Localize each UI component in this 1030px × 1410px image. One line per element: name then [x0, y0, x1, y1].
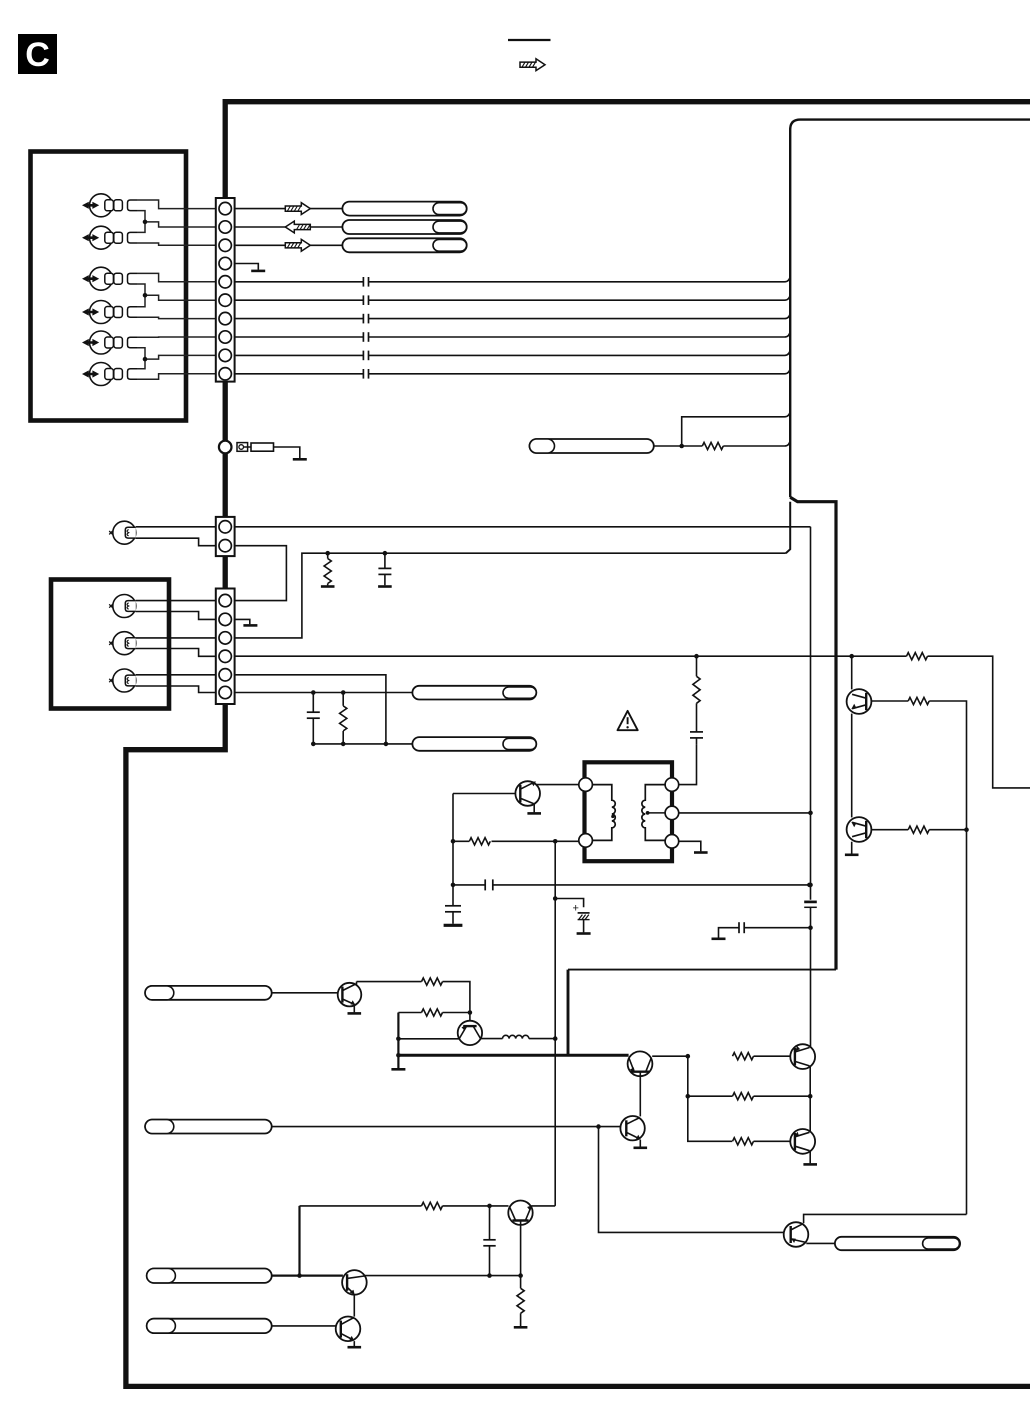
node [808, 883, 813, 888]
node [964, 827, 969, 832]
resistor R1 [324, 553, 331, 585]
node [686, 1094, 691, 1099]
connector CN3 pin 3 [219, 632, 231, 644]
connector CN1 pin 4 [219, 257, 231, 269]
resistor R7 [908, 697, 929, 704]
ground [514, 1326, 528, 1329]
ground [694, 851, 708, 854]
wire [654, 445, 682, 447]
capacitor C4 [485, 879, 493, 890]
ground [348, 1012, 362, 1015]
lamp PL1 [109, 521, 136, 544]
wire [443, 1012, 470, 1014]
connector CN1 pin 6 [219, 294, 231, 306]
net label [412, 686, 536, 700]
wire [520, 1221, 522, 1276]
wire [397, 1013, 399, 1069]
wire [235, 675, 386, 744]
node [396, 1037, 401, 1042]
transistor Q7 [620, 1116, 644, 1140]
ground [391, 1068, 405, 1071]
IC U1 outline jog to thick bus [790, 497, 836, 969]
transistor Q2 [847, 689, 872, 714]
ground [378, 585, 392, 588]
node [807, 883, 812, 888]
node [596, 1124, 601, 1129]
connector CN3 pin 4 [219, 650, 231, 662]
wire [532, 1205, 556, 1207]
connector CN3 pin 6 [219, 686, 231, 698]
wire [851, 842, 853, 854]
wire [136, 612, 216, 620]
wire [136, 686, 216, 693]
wire [652, 1055, 688, 1057]
wire [136, 526, 216, 528]
transistor Q3 [847, 817, 872, 842]
wire [145, 355, 216, 359]
wire [679, 744, 697, 785]
wire [744, 927, 810, 929]
capacitor C2 [307, 693, 320, 744]
wire [365, 1275, 521, 1277]
wire [688, 1095, 810, 1097]
wire [554, 841, 556, 1206]
net label [145, 986, 272, 1000]
connector CN1 pin 5 [219, 276, 231, 288]
resistor R5 [469, 838, 490, 845]
node [553, 1036, 558, 1041]
node [311, 742, 316, 747]
wire [136, 600, 216, 602]
motor M1 [82, 194, 137, 217]
transistor Q5 [458, 1021, 482, 1045]
node [311, 690, 316, 695]
resistor R2 [340, 693, 347, 744]
resistor R4 [693, 656, 700, 703]
wire [492, 840, 579, 842]
wire [682, 411, 791, 446]
transistor Q6 [628, 1051, 653, 1076]
node [808, 925, 813, 930]
wire [235, 264, 259, 270]
mechanism block (lamps) [51, 580, 169, 709]
title block label C [18, 34, 57, 74]
wire [235, 226, 343, 228]
board outline (thick border) [126, 102, 1030, 1387]
transformer T1 primary winding [592, 785, 615, 841]
ground [577, 932, 591, 935]
node [553, 839, 558, 844]
wire [272, 1274, 343, 1276]
transistor Q9 [790, 1129, 815, 1154]
resistor R13 [733, 1138, 754, 1145]
node [451, 883, 456, 888]
thermistor TH1 [237, 443, 251, 452]
node (junction) [143, 357, 148, 362]
net label [342, 220, 466, 234]
transistor Q1 [515, 781, 540, 806]
wire [235, 373, 364, 375]
resistor R8 [908, 826, 929, 833]
wire [493, 884, 810, 886]
wire [369, 331, 791, 337]
node [487, 1273, 492, 1278]
wire [810, 907, 812, 1047]
wire [599, 1127, 784, 1233]
transistor Q12 [342, 1270, 367, 1295]
node [341, 742, 346, 747]
transformer T1 pin 2 [579, 834, 593, 848]
connector CN1 pin 10 [219, 368, 231, 380]
wire [137, 243, 216, 245]
motor M2 [82, 226, 137, 249]
wire [679, 841, 701, 851]
wire break mark [363, 332, 368, 342]
motor M5 [82, 331, 137, 354]
ground [321, 585, 335, 588]
ground [527, 812, 541, 815]
wire [809, 1066, 811, 1132]
wire [235, 655, 852, 657]
wire [137, 273, 216, 281]
capacitor C3 [690, 703, 703, 744]
signal direction arrow [285, 239, 310, 251]
transformer T1 pin 1 [579, 778, 593, 792]
wire [235, 244, 343, 246]
wire [235, 692, 413, 694]
connector CN1 pin 7 [219, 312, 231, 324]
wire [639, 1072, 641, 1117]
wire [369, 276, 791, 282]
transformer T1 pin 4 [665, 806, 679, 820]
wire [369, 349, 791, 355]
legend arrow [520, 59, 545, 71]
connector CN1 pin 1 [219, 202, 231, 214]
connector CN1 [216, 198, 235, 382]
wire [929, 829, 966, 831]
wire [555, 899, 583, 908]
capacitor C9 [483, 1206, 495, 1276]
transistor Q13 [336, 1317, 361, 1342]
transistor Q11 [508, 1201, 532, 1225]
wire [136, 637, 216, 639]
connector CN3 pin 2 [219, 613, 231, 625]
wire [682, 440, 791, 446]
ground [634, 1147, 648, 1150]
connector CN3 [216, 589, 235, 705]
svg-text:C: C [25, 36, 50, 74]
node [325, 551, 330, 556]
wire [369, 313, 791, 319]
ground [293, 458, 307, 461]
IC U1 outline (rounded box) [790, 120, 1030, 498]
wire [719, 928, 740, 938]
fuse F1 [251, 443, 274, 451]
connector CN3 pin 5 [219, 669, 231, 681]
transistor Q8 [790, 1044, 815, 1069]
wire [804, 1214, 967, 1223]
capacitor C6 (electrolytic +) [573, 903, 590, 933]
wire [136, 649, 216, 657]
wire [353, 1341, 355, 1346]
wire [235, 336, 364, 338]
wire [398, 1054, 628, 1057]
wire [851, 714, 853, 818]
wire [235, 281, 364, 283]
connector CN2 pin 2 [219, 540, 231, 552]
wire break mark [363, 369, 368, 379]
node [808, 1094, 813, 1099]
net label [145, 1120, 272, 1134]
node [694, 654, 699, 659]
resistor R6 [907, 653, 928, 660]
wire [754, 1140, 791, 1142]
connector CN1 pin 3 [219, 239, 231, 251]
wire [852, 656, 1030, 788]
wire [272, 992, 338, 994]
node [396, 1053, 401, 1058]
wire [786, 502, 790, 554]
lamp PL4 [109, 669, 136, 692]
node [384, 742, 389, 747]
wire [443, 1205, 509, 1207]
wire [137, 348, 145, 359]
wire [136, 674, 216, 676]
node [679, 444, 684, 449]
net label [835, 1237, 960, 1250]
wire break mark [363, 277, 368, 287]
wire [529, 1038, 555, 1040]
connector CN2 [216, 517, 235, 556]
wire [533, 805, 535, 813]
wire [851, 656, 853, 689]
wire [688, 1056, 732, 1141]
node [808, 811, 813, 816]
wire break mark [363, 314, 368, 324]
wire [810, 527, 812, 900]
wire [536, 784, 579, 786]
signal direction arrow [285, 203, 310, 215]
resistor R9 [422, 1009, 443, 1016]
resistor R15 [517, 1276, 524, 1327]
capacitor C7 [804, 902, 817, 907]
transformer T1 tap [646, 811, 665, 815]
wire [806, 1242, 835, 1244]
wire [313, 743, 412, 745]
wire [274, 447, 300, 458]
wire break mark [363, 351, 368, 361]
transistor Q10 [784, 1222, 809, 1247]
resistor R12 [733, 1093, 754, 1100]
wire [300, 1205, 422, 1207]
net label [342, 238, 466, 252]
node [518, 1273, 523, 1278]
wire [966, 830, 968, 1215]
wire [369, 294, 791, 300]
wire [567, 970, 570, 1056]
motor M6 [82, 363, 137, 386]
wire [639, 1140, 641, 1147]
net label [342, 202, 466, 216]
inductor L1 [503, 1035, 529, 1038]
transformer T1 box [585, 762, 673, 861]
capacitor C8 [739, 922, 744, 933]
transformer T1 pin 5 [665, 835, 679, 849]
lamp PL3 [109, 632, 136, 655]
connector CN3 pin 1 [219, 594, 231, 606]
connector CN1 pin 9 [219, 349, 231, 361]
wire [353, 1006, 355, 1013]
mechanism block (motors) [31, 152, 187, 421]
node [849, 654, 854, 659]
resistor R10 [422, 978, 443, 985]
wire [235, 526, 811, 528]
resistor R11 [733, 1053, 754, 1060]
wire [453, 840, 469, 842]
capacitor C5 [445, 885, 461, 924]
wire [137, 336, 216, 338]
wire [568, 969, 836, 971]
wire [137, 295, 145, 306]
wire [369, 368, 791, 374]
wire [453, 884, 485, 886]
wire [871, 700, 908, 702]
wire [443, 982, 470, 1021]
wire [929, 701, 966, 830]
wire [137, 317, 216, 318]
wire [235, 546, 287, 601]
node (junction) [143, 220, 148, 225]
net label [147, 1319, 272, 1333]
wire [145, 295, 216, 300]
resistor R3 [702, 442, 723, 449]
transistor Q4 [338, 982, 362, 1007]
wire break mark [363, 295, 368, 305]
wire [235, 619, 250, 624]
transformer T1 pin 3 [665, 778, 679, 792]
wire [137, 374, 216, 380]
wire [453, 793, 515, 795]
wire [398, 1038, 458, 1040]
ground [243, 624, 257, 627]
legend line [508, 39, 551, 41]
wire [235, 553, 786, 638]
wire [871, 829, 908, 831]
motor M4 [82, 301, 137, 324]
ground [845, 853, 859, 856]
wire [754, 1055, 791, 1057]
node on bus [219, 441, 232, 454]
node [686, 1054, 691, 1059]
wire [137, 222, 145, 233]
net label [147, 1269, 272, 1283]
wire [298, 1206, 300, 1276]
wire [235, 208, 343, 210]
warning symbol [618, 711, 638, 730]
ground [251, 270, 265, 273]
wire [137, 359, 145, 369]
wire [452, 794, 454, 885]
wire [235, 318, 364, 320]
net label [530, 439, 654, 453]
net label [412, 737, 536, 751]
ground [348, 1346, 362, 1349]
node [487, 1204, 492, 1209]
wire [137, 284, 145, 295]
connector CN1 pin 2 [219, 221, 231, 233]
wire [272, 1126, 621, 1128]
wire [137, 200, 216, 209]
wire [272, 1325, 336, 1327]
connector CN2 pin 1 [219, 521, 231, 533]
node [468, 1010, 473, 1015]
wire [679, 812, 811, 814]
node [553, 896, 558, 901]
wire [136, 538, 216, 546]
node [297, 1273, 302, 1278]
motor M3 [82, 267, 137, 290]
wire [353, 1295, 355, 1317]
capacitor C1 [378, 553, 391, 585]
node [341, 690, 346, 695]
connector CN1 pin 8 [219, 331, 231, 343]
signal direction arrow [285, 221, 310, 233]
lamp PL2 [109, 595, 136, 618]
wire [357, 981, 422, 983]
node [451, 839, 456, 844]
ground [712, 937, 726, 940]
wire [137, 211, 145, 222]
wire [398, 1012, 421, 1014]
transformer T1 secondary winding [642, 785, 665, 841]
wire [235, 354, 364, 356]
wire [809, 1151, 811, 1163]
resistor R14 [422, 1202, 443, 1209]
wire [145, 222, 216, 227]
ground [444, 924, 463, 927]
node [383, 551, 388, 556]
node (junction) [143, 293, 148, 298]
wire [481, 1038, 503, 1040]
wire [235, 299, 364, 301]
ground [803, 1163, 817, 1166]
